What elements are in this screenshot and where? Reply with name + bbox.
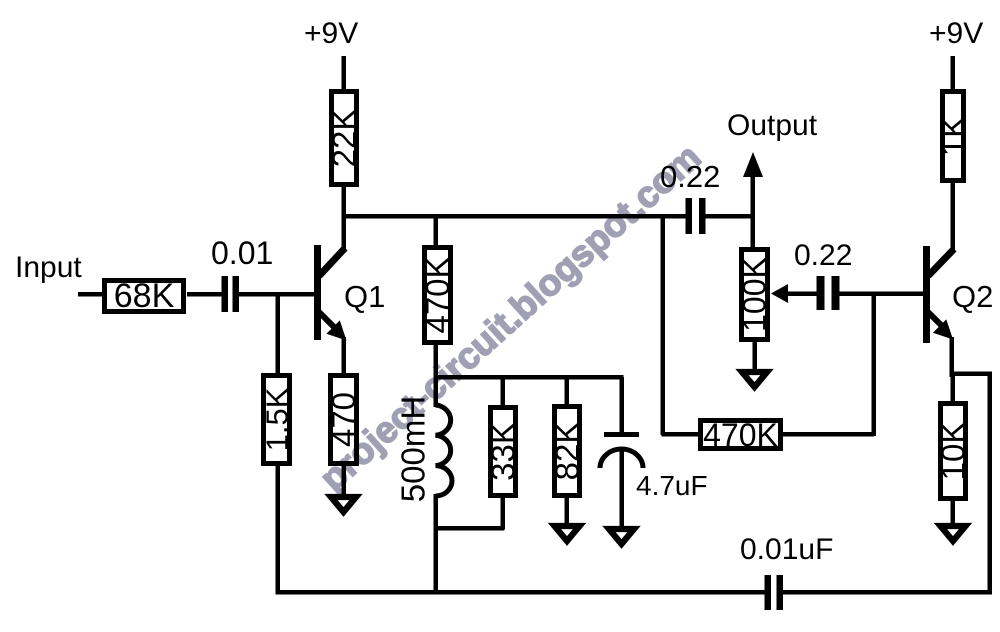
wire 470K top lead <box>434 216 439 247</box>
wire Q1 emitter to 470 <box>342 337 347 375</box>
svg-text:1K: 1K <box>935 116 972 156</box>
wire branch to 4.7uF <box>620 377 625 433</box>
pot wiper arrow <box>771 284 817 303</box>
wire 470K to coil <box>434 345 439 407</box>
wire 1.5K to bottom rail <box>276 466 281 594</box>
svg-text:0.01: 0.01 <box>211 235 273 271</box>
node base junction vertical to 1.5K <box>276 295 281 373</box>
resistor 470K feedback <box>701 417 781 453</box>
svg-text:4.7uF: 4.7uF <box>636 470 708 501</box>
ground below 10K <box>941 526 966 541</box>
svg-text:+9V: +9V <box>929 17 983 50</box>
wire 470K-feedback right lead <box>783 432 874 437</box>
resistor 1.5K <box>260 376 295 464</box>
resistor 82K <box>549 407 586 496</box>
svg-text:Q1: Q1 <box>344 279 385 314</box>
svg-text:68K: 68K <box>114 277 175 315</box>
wire 33K top lead <box>501 377 506 407</box>
svg-text:82K: 82K <box>549 422 586 481</box>
wire branch rail y377 <box>434 375 624 380</box>
output arrow <box>743 152 763 247</box>
svg-text:22K: 22K <box>326 109 363 168</box>
capacitor 0.22 top <box>686 198 706 234</box>
node rail to 470K-feedback vertical <box>661 216 666 435</box>
wire bottom rail left <box>276 590 765 595</box>
resistor 68K <box>105 277 184 315</box>
svg-text:Output: Output <box>727 109 818 142</box>
svg-text:0.22: 0.22 <box>794 239 852 272</box>
wire right vertical to bottom rail <box>988 372 993 595</box>
wire 470 to ground <box>342 466 347 496</box>
wire pot bottom lead <box>753 342 758 372</box>
resistor 470K vertical <box>419 248 456 343</box>
wire 68K to C1 <box>187 292 222 297</box>
inductor 500mH coil <box>436 405 453 496</box>
resistor 1K <box>935 92 972 181</box>
watermark project-circuit.blogspot.com <box>312 136 709 499</box>
ground below 4.7uF <box>609 529 634 544</box>
svg-text:10K: 10K <box>935 422 972 481</box>
wire 82K top lead <box>565 377 570 406</box>
wire 33K bottom connector <box>436 526 505 531</box>
wire Q2 emitter down <box>950 337 955 377</box>
ground below 470 <box>331 497 356 512</box>
svg-text:470K: 470K <box>419 256 456 333</box>
wire bottom rail right <box>783 590 992 595</box>
svg-text:470K: 470K <box>703 417 778 453</box>
capacitor 0.01 input <box>222 276 240 312</box>
wire 33K bottom lead <box>501 496 506 529</box>
svg-text:Input: Input <box>15 251 82 284</box>
wire input lead <box>78 292 103 297</box>
resistor 33K <box>485 408 522 496</box>
svg-text:33K: 33K <box>485 422 522 481</box>
wire cap to output node <box>706 214 753 219</box>
capacitor 0.01uF bottom <box>765 575 784 610</box>
svg-text:Q2: Q2 <box>952 279 993 314</box>
wire emitter to right vertical <box>950 372 992 377</box>
wire C1 to Q1 base <box>239 292 315 297</box>
wire 1K to Q2 collector <box>951 183 956 251</box>
wire 82K bottom lead <box>565 496 570 524</box>
svg-text:+9V: +9V <box>304 17 358 50</box>
wire 22K to collector <box>342 187 347 251</box>
capacitor 4.7uF <box>600 432 643 527</box>
transistor Q2 <box>923 246 954 343</box>
wire cap to Q2 base <box>838 292 924 297</box>
svg-text:0.01uF: 0.01uF <box>740 533 833 566</box>
potentiometer 100K <box>737 250 773 340</box>
svg-text:1.5K: 1.5K <box>260 387 295 451</box>
wire 10K bottom lead <box>951 498 956 526</box>
wire +9V to 22K <box>342 56 347 90</box>
capacitor 0.22 right <box>817 276 840 310</box>
wire 470K-feedback left lead <box>662 432 701 437</box>
wire top rail <box>342 214 688 219</box>
svg-text:100K: 100K <box>737 257 773 332</box>
ground below pot <box>742 372 767 387</box>
wire emitter to 10K <box>951 376 956 403</box>
wire +9V to 1K <box>951 56 956 90</box>
transistor Q1 <box>314 245 347 341</box>
resistor 470 <box>325 376 362 464</box>
resistor 22K <box>326 92 363 185</box>
node feedback junction vertical <box>872 293 877 436</box>
wire coil bottom to bottom rail <box>434 494 439 594</box>
resistor 10K <box>935 404 972 499</box>
ground below 82K <box>555 526 580 541</box>
